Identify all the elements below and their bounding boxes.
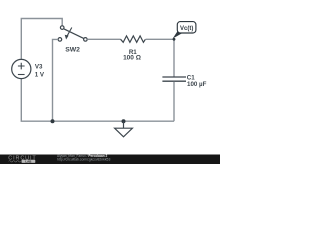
ground symbol: [115, 121, 133, 137]
svg-text:LAB: LAB: [25, 159, 32, 163]
switch SW2 right terminal: [84, 38, 88, 42]
wire bottom rail: [21, 79, 174, 122]
svg-text:http://circuitlab.com/cgkcsv82: http://circuitlab.com/cgkcsv82nkk53: [57, 157, 110, 161]
voltage source V3: [12, 59, 31, 78]
junction dot at left branch on bottom rail: [51, 119, 55, 123]
node Vc corner dot: [173, 38, 176, 41]
footer logo LAB box: [22, 160, 36, 163]
footer bar: [0, 155, 220, 165]
junction dot at ground tap: [122, 119, 126, 123]
svg-text:100 Ω: 100 Ω: [123, 55, 141, 62]
resistor R1: [121, 36, 146, 42]
svg-text:SW2: SW2: [65, 47, 80, 54]
voltage label flag Vc(t): [173, 22, 196, 39]
svg-text:Vc(t): Vc(t): [180, 26, 193, 32]
svg-text:100 µF: 100 µF: [187, 81, 207, 88]
svg-text:V3: V3: [35, 64, 43, 71]
switch SW2 left terminal: [58, 38, 62, 42]
switch SW2 actuator arrow: [65, 28, 72, 40]
switch SW2 top terminal: [60, 26, 64, 30]
switch SW2 blade: [64, 29, 84, 39]
wire from switch right terminal to resistor: [87, 38, 121, 40]
capacitor C1 bottom plate: [162, 80, 186, 82]
svg-text:1 V: 1 V: [35, 71, 45, 78]
footer logo wave: [9, 161, 21, 162]
capacitor C1 top plate: [162, 76, 186, 78]
wire top horizontal from V3 to switch: [21, 19, 62, 60]
wire from switch left terminal down to bottom rail: [53, 39, 59, 121]
wire from capacitor down to bottom rail: [173, 82, 175, 121]
wire from resistor to top-right corner and down to capacitor: [146, 39, 174, 76]
